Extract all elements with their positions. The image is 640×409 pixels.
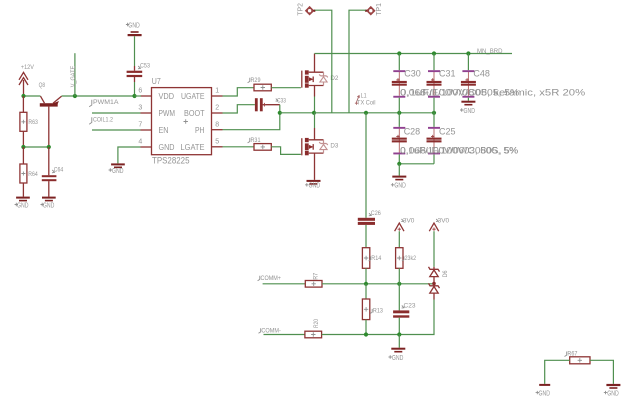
- wire phase row right: [314, 112, 434, 114]
- svg-text:C23: C23: [404, 303, 416, 310]
- svg-text:GND: GND: [17, 201, 29, 210]
- svg-text:V_GATE: V_GATE: [70, 65, 77, 87]
- capacitor C25: [427, 113, 456, 164]
- svg-text:GND: GND: [128, 21, 140, 30]
- svg-text:D6: D6: [442, 270, 449, 277]
- wire phase down to C26: [365, 113, 367, 218]
- resistor R29: [248, 77, 272, 91]
- svg-text:PWM1A: PWM1A: [93, 99, 119, 106]
- svg-text:C64: C64: [54, 167, 64, 174]
- node comm+ R14 junction: [364, 282, 368, 286]
- node phase C28 junction: [397, 111, 401, 115]
- wire C26 to R14: [365, 225, 367, 248]
- ground under C48: [460, 101, 475, 115]
- node junction Q8 base row: [47, 145, 51, 149]
- wire C25 bottom to C28 bottom: [399, 163, 434, 165]
- wire 3V0 to D6: [433, 231, 435, 267]
- capacitor C64: [42, 147, 64, 197]
- svg-text:8: 8: [215, 121, 219, 128]
- wire GND pin4 net: [118, 147, 141, 163]
- ground right of R67: [604, 384, 621, 398]
- svg-text:R29: R29: [251, 77, 261, 84]
- wire COMM+ to R27: [263, 283, 306, 285]
- svg-text:GND: GND: [43, 201, 55, 210]
- wire GND to C53: [134, 36, 136, 66]
- power 3V0 arrow 2: [429, 218, 449, 232]
- wire PWM net: [92, 112, 141, 114]
- node boot/phase junction: [278, 111, 282, 115]
- resistor R67: [565, 351, 591, 364]
- capacitor C31: [427, 54, 456, 113]
- svg-text:TPS28225: TPS28225: [152, 155, 190, 165]
- svg-text:5: 5: [215, 138, 219, 145]
- svg-text:C31: C31: [439, 68, 456, 78]
- capacitor C53: [127, 63, 151, 82]
- wire junction to ground: [398, 164, 400, 176]
- svg-text:3V0: 3V0: [438, 218, 450, 225]
- diode D6 dual zener: [429, 267, 449, 300]
- wire comm- to ground: [398, 335, 400, 348]
- svg-text:PWM: PWM: [159, 109, 176, 118]
- ground under C28: [391, 176, 406, 190]
- node VDD junction: [132, 94, 136, 98]
- svg-text:COMM+: COMM+: [261, 275, 282, 282]
- svg-text:0,1uF/100V/0805, keramic, x5R: 0,1uF/100V/0805, keramic, x5R 20%: [400, 87, 586, 98]
- transistor Q3 lower MOSFET D3: [302, 128, 339, 180]
- svg-text:GND: GND: [112, 166, 124, 175]
- svg-text:C25: C25: [439, 127, 456, 137]
- svg-text:GND: GND: [607, 389, 619, 398]
- svg-text:GND: GND: [394, 181, 406, 190]
- wire LGATE to R31: [223, 146, 255, 148]
- wire R67 right to ground: [590, 360, 613, 384]
- svg-text:PH: PH: [195, 126, 205, 135]
- ground under pin 4: [109, 163, 125, 175]
- pin 5 LGATE: [212, 138, 223, 146]
- svg-text:R64: R64: [28, 171, 38, 178]
- wire input rail MN_BRD: [315, 53, 513, 55]
- wire lower FET drain to phase: [314, 113, 316, 128]
- node +12V junction: [21, 94, 25, 98]
- node rail junction C30: [397, 51, 401, 55]
- pin 7 EN: [138, 122, 151, 130]
- svg-text:4: 4: [138, 139, 142, 146]
- svg-text:COIL1.2: COIL1.2: [93, 117, 113, 124]
- svg-text:EN: EN: [159, 126, 169, 135]
- pin 4 GND: [138, 139, 151, 147]
- node phase at FET: [312, 111, 316, 115]
- wire R27 to diode junction: [322, 283, 434, 285]
- wire V_GATE stub: [74, 53, 76, 96]
- resistor R14: [362, 248, 381, 269]
- resistor R63: [20, 96, 38, 147]
- wire C53 to VDD junction: [134, 82, 136, 96]
- svg-text:L1: L1: [361, 93, 367, 100]
- wire Q8 emitter to V_GATE junction: [62, 95, 135, 97]
- svg-text:C26: C26: [371, 210, 381, 217]
- wire R31 to Q lower gate: [271, 147, 301, 155]
- pin 1 UGATE: [212, 88, 223, 96]
- svg-text:R31: R31: [251, 137, 261, 144]
- node comm- C23 junction: [397, 332, 401, 336]
- capacitor C30: [392, 54, 421, 113]
- svg-text:23k2: 23k2: [405, 255, 417, 262]
- svg-text:C48: C48: [473, 68, 490, 78]
- wire COIL net: [92, 129, 141, 131]
- svg-text:1: 1: [215, 88, 219, 95]
- svg-text:D3: D3: [330, 143, 338, 150]
- wire BOOT to C33: [223, 105, 255, 113]
- svg-text:3: 3: [138, 105, 142, 112]
- test point TP1: [365, 3, 383, 16]
- svg-text:Q8: Q8: [39, 82, 46, 89]
- wire 3V0 to 23k2: [398, 231, 400, 248]
- wire R14 to comm+ row: [365, 268, 367, 284]
- wire R29 to Q upper gate: [271, 87, 301, 89]
- test point TP2: [296, 3, 316, 16]
- net label COMM+: [258, 275, 281, 282]
- resistor R12 23k2: [396, 248, 417, 269]
- svg-text:+12V: +12V: [21, 64, 34, 71]
- svg-text:C28: C28: [404, 127, 421, 137]
- ground under lower FET: [305, 180, 320, 190]
- node phase mid junction: [364, 111, 368, 115]
- svg-text:COMM-: COMM-: [261, 327, 281, 334]
- svg-text:2: 2: [215, 105, 219, 112]
- op-amp U1 ... IC U7 TPS28225: [152, 77, 212, 165]
- node rail junction C31: [432, 51, 436, 55]
- wire R20 to diode bottom: [322, 300, 434, 335]
- capacitor C48: [461, 54, 490, 101]
- resistor R64: [20, 147, 38, 197]
- svg-text:0,1uF/100V/0603, 50G, 5%: 0,1uF/100V/0603, 50G, 5%: [400, 146, 518, 157]
- wire TP2 down to phase: [315, 10, 332, 113]
- resistor R13: [362, 284, 383, 335]
- svg-text:R63: R63: [28, 119, 38, 126]
- wire phase junction to FET leg: [280, 112, 315, 114]
- resistor R27: [305, 273, 322, 287]
- wire upper FET source to phase: [314, 97, 316, 113]
- transistor Q2 upper MOSFET D2: [302, 54, 339, 97]
- net label COIL1.2: [89, 117, 113, 125]
- ground under C23: [389, 348, 406, 362]
- node comm+ C23 junction: [397, 282, 401, 286]
- wire 23k2 to comm+ row: [398, 268, 400, 284]
- svg-text:R13: R13: [373, 308, 383, 315]
- svg-text:GND: GND: [539, 389, 551, 398]
- ground above C53: [126, 21, 142, 37]
- svg-text:3V0: 3V0: [403, 218, 415, 225]
- resistor R31: [248, 137, 272, 150]
- node C28 bottom junction: [397, 162, 401, 166]
- net label PWM1A: [89, 99, 119, 107]
- svg-text:U7: U7: [152, 77, 161, 86]
- svg-text:R14: R14: [371, 255, 381, 262]
- pin 6 VDD: [135, 88, 152, 96]
- transistor Q8: [39, 82, 62, 147]
- resistor R20: [305, 319, 322, 338]
- svg-text:R7: R7: [312, 273, 319, 280]
- node phase C25 junction: [432, 111, 436, 115]
- pin 2 BOOT: [212, 105, 223, 113]
- wire UGATE to R29: [223, 88, 255, 96]
- ground under C64: [41, 197, 56, 210]
- svg-text:TP1: TP1: [374, 3, 383, 16]
- node comm- R13 junction: [364, 332, 368, 336]
- pin 8 PH: [212, 121, 223, 129]
- svg-text:TP2: TP2: [296, 3, 305, 16]
- svg-text:GND: GND: [392, 353, 404, 362]
- svg-text:GND: GND: [309, 181, 321, 190]
- capacitor C23: [393, 284, 416, 335]
- svg-text:MN_BRD: MN_BRD: [477, 48, 503, 55]
- net label COMM-: [259, 327, 281, 334]
- svg-text:BOOT: BOOT: [184, 109, 205, 118]
- power +12V: [19, 64, 34, 96]
- wire C33 down to boot junction: [279, 105, 281, 113]
- svg-text:VDD: VDD: [159, 92, 175, 101]
- svg-text:LGATE: LGATE: [181, 143, 205, 152]
- wire PH pin to junction: [223, 113, 280, 130]
- svg-text:TX Coil: TX Coil: [357, 100, 376, 107]
- wire COMM- to R20: [264, 334, 305, 336]
- wire R63 R64 junction row: [23, 146, 48, 148]
- svg-text:GND: GND: [159, 143, 175, 152]
- svg-text:C53: C53: [140, 63, 150, 70]
- capacitor C33: [255, 97, 286, 111]
- svg-text:UGATE: UGATE: [181, 92, 205, 101]
- ground left of R67: [536, 384, 551, 398]
- capacitor C28: [392, 113, 420, 164]
- ground under R64: [15, 197, 30, 210]
- svg-text:GND: GND: [464, 106, 476, 115]
- wire R67 left to ground: [545, 360, 570, 384]
- svg-text:R67: R67: [567, 351, 577, 358]
- svg-text:R20: R20: [313, 319, 320, 328]
- node junction R63-R64: [21, 145, 25, 149]
- svg-text:7: 7: [138, 122, 142, 129]
- capacitor C26: [358, 210, 381, 225]
- svg-text:6: 6: [138, 88, 142, 95]
- node V_GATE junction: [73, 94, 77, 98]
- svg-text:C30: C30: [404, 68, 421, 78]
- wire +12V row to Q8: [24, 95, 41, 97]
- power 3V0 arrow 1: [395, 218, 415, 232]
- inductor L1 TX Coil label: [355, 93, 376, 107]
- pin 3 PWM: [138, 105, 151, 113]
- node rail junction C48: [466, 51, 470, 55]
- wire TP1 down to phase: [349, 10, 366, 113]
